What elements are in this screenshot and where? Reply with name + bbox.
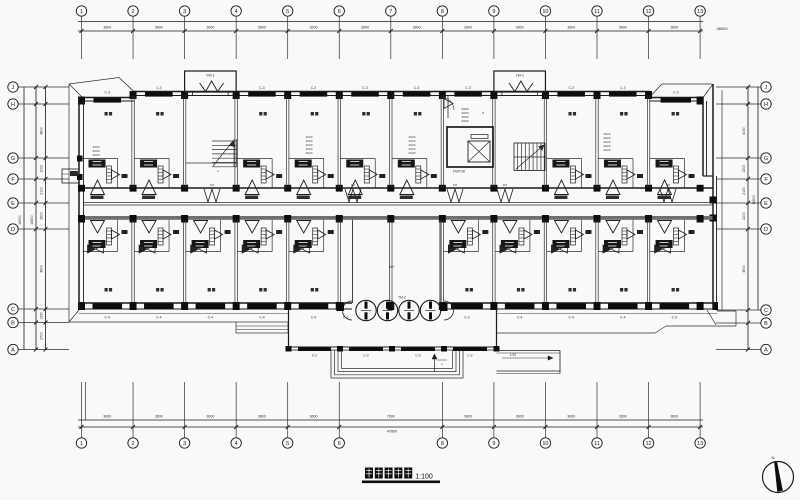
basin block bottom bay11 xyxy=(604,240,621,248)
column bottom-4 xyxy=(233,302,240,310)
row extension line xyxy=(716,228,761,230)
column corridor-N-5 xyxy=(284,185,291,192)
room label bottom bay12 xyxy=(672,288,675,292)
door leaf triangle top bay7 xyxy=(400,180,414,195)
grid bubble 4 top xyxy=(231,6,241,16)
room label top bay6 xyxy=(362,112,365,116)
shower hatch strip bottom bay12 xyxy=(674,228,679,245)
dim tick xyxy=(337,29,341,33)
grid bubble 2 bottom xyxy=(128,438,138,448)
shower hatch strip top bay2 xyxy=(158,166,163,183)
svg-text:12: 12 xyxy=(645,441,651,447)
svg-text:5: 5 xyxy=(286,9,289,15)
bathroom partition top bay10 xyxy=(546,158,581,160)
grid bubble 7 top xyxy=(386,6,396,16)
north arrow circle xyxy=(763,462,794,493)
grid line xyxy=(184,16,186,59)
left segment dim line xyxy=(45,87,47,350)
bathroom partition top bay5 xyxy=(289,158,324,160)
door swing side bottom bay4 xyxy=(266,230,274,239)
bowtie fixture bottom bay10 xyxy=(551,245,559,253)
column top-13 xyxy=(697,97,704,105)
dim tick xyxy=(440,425,444,429)
party wall grid 4 top xyxy=(234,96,236,189)
window C-3 bay2 xyxy=(145,92,173,97)
shower hatch strip bottom bay9 xyxy=(519,228,524,245)
svg-text:6: 6 xyxy=(338,9,341,15)
room label bottom bay11 xyxy=(620,288,623,292)
column bottom-8 xyxy=(439,302,446,310)
svg-text:4900: 4900 xyxy=(742,265,746,273)
svg-text:YM-1: YM-1 xyxy=(206,74,215,78)
bowtie fixture bottom bay11 xyxy=(603,245,611,253)
party wall grid 5 top xyxy=(286,96,288,189)
side door arc right xyxy=(444,301,454,320)
vestibule YM-1 xyxy=(494,71,546,92)
grid line xyxy=(184,382,186,438)
svg-text:3600: 3600 xyxy=(309,26,317,30)
svg-text:3600: 3600 xyxy=(670,26,678,30)
corridor fire door FM zigzag xyxy=(447,189,463,202)
column corridor-N-10 xyxy=(542,185,549,192)
grid bubble 4 bottom xyxy=(231,438,241,448)
row bubble H right xyxy=(761,99,771,109)
party wall grid 6 top xyxy=(337,96,339,189)
dim tick xyxy=(337,425,341,429)
party wall grid 12 top xyxy=(646,96,648,189)
svg-text:1350: 1350 xyxy=(40,312,44,320)
column bottom-11 xyxy=(594,302,601,310)
bathroom partition top bay11 xyxy=(598,158,633,160)
svg-text:16900: 16900 xyxy=(18,215,22,225)
hall west wall xyxy=(352,220,354,303)
grid line xyxy=(132,382,134,438)
bathroom partition top bay4 xyxy=(237,158,272,160)
porch column xyxy=(337,346,343,352)
svg-text:3600: 3600 xyxy=(155,26,163,30)
window C-3 bay4 xyxy=(248,92,276,97)
party wall grid 12 bottom xyxy=(646,220,648,303)
column bottom-3 xyxy=(181,302,188,310)
shower hatch strip bottom bay10 xyxy=(570,228,575,245)
room label bottom bay5 xyxy=(311,288,314,292)
svg-text:C: C xyxy=(764,308,768,314)
svg-text:48000: 48000 xyxy=(716,26,728,31)
svg-text:FM0718: FM0718 xyxy=(453,170,465,174)
svg-text:H: H xyxy=(11,102,15,108)
column bottom-1 xyxy=(78,302,85,310)
shower hatch strip bottom bay1 xyxy=(107,228,112,245)
grid line xyxy=(441,382,443,438)
grid bubble 6 top xyxy=(334,6,344,16)
top-left canopy parapet xyxy=(69,78,134,92)
row extension line xyxy=(18,322,69,324)
column top-7 xyxy=(387,91,394,99)
svg-text:11: 11 xyxy=(594,9,600,15)
column corridor-N-8 xyxy=(439,185,446,192)
svg-text:B: B xyxy=(11,321,15,327)
svg-text:1:100: 1:100 xyxy=(415,474,433,481)
dim tick xyxy=(80,425,84,429)
shower hatch strip top bay10 xyxy=(570,166,575,183)
svg-text:3600: 3600 xyxy=(155,415,163,419)
room label bottom bay4 xyxy=(259,288,262,292)
grid line 1a xyxy=(85,382,87,420)
dim tick xyxy=(131,29,135,33)
row bubble F right xyxy=(761,174,771,184)
bathroom partition bottom bay8 xyxy=(443,251,478,253)
svg-text:J: J xyxy=(765,85,768,91)
row extension line xyxy=(18,349,69,351)
grid bubble 6 bottom xyxy=(334,438,344,448)
party wall grid 3 top xyxy=(182,96,184,189)
column bottom-5 xyxy=(284,302,291,310)
party wall grid 4 bottom xyxy=(234,220,236,303)
dim tick xyxy=(80,29,84,33)
door swing side bottom bay12 xyxy=(679,230,687,239)
dim tick xyxy=(647,29,651,33)
door leaf triangle top bay6 xyxy=(348,180,362,195)
svg-text:2150: 2150 xyxy=(742,187,746,195)
vestibule YM-1 xyxy=(185,71,237,92)
left wall junction blocks xyxy=(77,156,83,162)
dim tick xyxy=(440,29,444,33)
grid line xyxy=(596,382,598,438)
grid line xyxy=(235,382,237,438)
top exterior wall xyxy=(134,91,650,93)
svg-text:7600: 7600 xyxy=(387,415,395,419)
party wall grid 10 bottom xyxy=(543,220,545,303)
row extension line xyxy=(18,228,69,230)
grid bubble 3 top xyxy=(179,6,189,16)
svg-text:1: 1 xyxy=(80,9,83,15)
window C-3 bay6 xyxy=(351,92,379,97)
svg-text:C-4: C-4 xyxy=(620,316,626,320)
svg-text:B: B xyxy=(764,321,768,327)
grid line xyxy=(441,16,443,59)
shower hatch strip bottom bay5 xyxy=(313,228,318,245)
svg-text:3600: 3600 xyxy=(103,26,111,30)
room label bottom bay10 xyxy=(568,288,571,292)
dim tick xyxy=(647,425,651,429)
bowtie fixture bottom bay2 xyxy=(139,245,147,253)
grid line xyxy=(648,16,650,59)
column corridor-N-11 xyxy=(594,185,601,192)
svg-text:47800: 47800 xyxy=(387,430,398,434)
column corridor-S-6 xyxy=(336,215,343,223)
bottom-right corner diagonal xyxy=(707,310,716,325)
dim tick xyxy=(389,29,393,33)
room label bottom bay2 xyxy=(156,288,159,292)
svg-text:2200: 2200 xyxy=(742,165,746,173)
column bottom-right-end xyxy=(713,302,718,310)
column bottom-10 xyxy=(542,302,549,310)
column corridor-S-3 xyxy=(181,215,188,223)
row bubble C right xyxy=(761,305,771,315)
column bottom-2 xyxy=(130,302,137,310)
room label top bay7 xyxy=(414,112,417,116)
window C-4 bay2 bottom xyxy=(144,304,174,310)
party wall grid 5 bottom xyxy=(286,220,288,303)
row extension line xyxy=(716,202,761,204)
door leaf triangle bottom bay9 xyxy=(503,221,517,234)
svg-text:5: 5 xyxy=(286,441,289,447)
corridor fire door FM zigzag xyxy=(204,189,220,202)
door leaf triangle bottom bay1 xyxy=(91,221,105,234)
door leaf triangle top bay12 xyxy=(658,180,672,195)
room label bottom bay1 xyxy=(105,288,108,292)
grid bubble 2 top xyxy=(128,6,138,16)
door leaf triangle top bay5 xyxy=(297,180,311,195)
svg-text:FM: FM xyxy=(453,183,458,187)
svg-text:YM-1: YM-1 xyxy=(515,74,524,78)
door swing side bottom bay11 xyxy=(627,230,635,239)
grid line xyxy=(596,16,598,59)
grid bubble 12 top xyxy=(643,6,653,16)
bowtie fixture bottom bay8 xyxy=(448,245,456,253)
bowtie fixture bottom bay9 xyxy=(500,245,508,253)
grid bubble 9 bottom xyxy=(489,438,499,448)
svg-text:D: D xyxy=(11,227,15,233)
window C-3 bay1 xyxy=(94,98,122,103)
column corridor-S-5 xyxy=(284,215,291,223)
svg-text:1/12: 1/12 xyxy=(510,353,516,357)
row extension line xyxy=(18,178,69,180)
grid bubble 8 bottom xyxy=(437,438,447,448)
svg-text:8: 8 xyxy=(441,9,444,15)
right wall step xyxy=(703,175,713,177)
svg-text:13: 13 xyxy=(697,9,703,15)
party wall grid 9 bottom xyxy=(492,220,494,303)
room label top bay5 xyxy=(311,112,314,116)
door leaf triangle bottom bay11 xyxy=(606,221,620,234)
door leaf triangle top bay4 xyxy=(245,180,259,195)
column corridor-S-8 xyxy=(439,215,446,223)
stair ST-2 xyxy=(514,143,545,171)
svg-text:C-3: C-3 xyxy=(568,86,574,90)
row bubble D left xyxy=(8,224,18,234)
shower hatch strip bottom bay8 xyxy=(467,228,472,245)
porch column xyxy=(286,346,292,352)
svg-text:C-3: C-3 xyxy=(363,354,368,358)
party wall grid 11 bottom xyxy=(595,220,597,303)
bathroom partition bottom bay12 xyxy=(650,251,685,253)
porch column xyxy=(494,346,500,352)
svg-text:3600: 3600 xyxy=(258,26,266,30)
door swing side top bay10 xyxy=(575,170,583,179)
svg-text:2100: 2100 xyxy=(40,187,44,195)
column top-10 xyxy=(542,91,549,99)
top wall recessed bay 12 xyxy=(650,97,703,99)
dim tick xyxy=(131,425,135,429)
grid bubble 11 bottom xyxy=(592,438,602,448)
column corridor-S-7 xyxy=(387,215,394,223)
svg-text:8#+: 8#+ xyxy=(389,265,395,269)
door swing side bottom bay10 xyxy=(575,230,583,239)
grid line xyxy=(287,16,289,59)
column corridor-N-4 xyxy=(233,185,240,192)
bathroom partition top bay7 xyxy=(392,158,427,160)
grid bubble 8 top xyxy=(437,6,447,16)
window C-4 bay5 bottom xyxy=(299,304,329,310)
svg-text:8: 8 xyxy=(482,111,484,115)
window C-2 bay6 bottom xyxy=(349,304,351,310)
svg-text:C-3: C-3 xyxy=(673,91,679,95)
svg-text:3900: 3900 xyxy=(464,26,472,30)
svg-text:C-4: C-4 xyxy=(105,316,111,320)
row bubble H left xyxy=(8,99,18,109)
grid bubble 11 top xyxy=(592,6,602,16)
dim tick xyxy=(183,29,187,33)
svg-text:9: 9 xyxy=(492,441,495,447)
svg-text:3600: 3600 xyxy=(619,26,627,30)
shower hatch strip top bay5 xyxy=(313,166,318,183)
svg-text:C-4: C-4 xyxy=(156,316,162,320)
grid line xyxy=(699,382,701,438)
shower hatch strip top bay6 xyxy=(364,166,369,183)
basin block bottom bay3 xyxy=(192,240,209,248)
row extension line xyxy=(716,349,761,351)
svg-text:FM: FM xyxy=(503,183,508,187)
grid line xyxy=(81,382,83,438)
svg-text:FM: FM xyxy=(666,183,671,187)
svg-text:3: 3 xyxy=(183,9,186,15)
party wall grid 8 bottom xyxy=(440,220,442,303)
dim tick xyxy=(492,425,496,429)
shower hatch strip bottom bay2 xyxy=(158,228,163,245)
row bubble J left xyxy=(8,82,18,92)
svg-text:D: D xyxy=(764,227,768,233)
bottom-left eave line xyxy=(69,321,236,323)
dim tick xyxy=(183,425,187,429)
door leaf triangle bottom bay12 xyxy=(658,221,672,234)
row extension line xyxy=(18,308,69,310)
svg-text:C: C xyxy=(11,307,15,313)
svg-text:16800: 16800 xyxy=(752,195,756,205)
door leaf triangle bottom bay3 xyxy=(194,221,208,234)
column bottom-7 xyxy=(387,302,394,310)
svg-text:C-3: C-3 xyxy=(362,86,368,90)
window C-3 bay11 xyxy=(609,92,637,97)
column top-6 xyxy=(336,91,343,99)
row bubble E left xyxy=(8,198,18,208)
svg-text:3600: 3600 xyxy=(619,415,627,419)
row bubble B left xyxy=(8,317,18,327)
basin block bottom bay8 xyxy=(449,240,466,248)
door leaf triangle top bay10 xyxy=(554,180,568,195)
dim tick xyxy=(234,425,238,429)
door leaf triangle bottom bay4 xyxy=(245,221,259,234)
door swing side top bay7 xyxy=(421,170,429,179)
svg-text:C-3: C-3 xyxy=(259,86,265,90)
hall east wall xyxy=(439,220,441,303)
svg-text:11: 11 xyxy=(594,441,600,447)
shower hatch strip top bay7 xyxy=(416,166,421,183)
row extension line xyxy=(716,322,761,324)
door swing side bottom bay2 xyxy=(163,230,171,239)
svg-text:3600: 3600 xyxy=(516,415,524,419)
bathroom partition bottom bay9 xyxy=(495,251,530,253)
shower hatch strip top bay11 xyxy=(622,166,627,183)
window C-4 bay1 bottom xyxy=(93,304,123,310)
svg-text:3900: 3900 xyxy=(361,26,369,30)
svg-text:3900: 3900 xyxy=(413,26,421,30)
door break zigzag xyxy=(200,81,224,92)
door swing side bottom bay5 xyxy=(318,230,326,239)
svg-text:3600: 3600 xyxy=(670,415,678,419)
svg-text:N: N xyxy=(772,455,775,460)
lobby partition xyxy=(447,96,449,118)
svg-text:4: 4 xyxy=(235,9,238,15)
dim tick xyxy=(698,425,702,429)
dim tick xyxy=(543,425,547,429)
bathroom partition bottom bay1 xyxy=(83,251,118,253)
bottom dimension line xyxy=(78,419,703,421)
column corridor-N-13 xyxy=(697,185,704,192)
grid line xyxy=(493,16,495,59)
room label bottom bay9 xyxy=(517,288,520,292)
party wall grid 6 bottom xyxy=(337,220,339,303)
shower hatch strip top bay4 xyxy=(261,166,266,183)
row bubble C left xyxy=(8,304,18,314)
svg-text:10: 10 xyxy=(542,9,548,15)
door swing side top bay6 xyxy=(369,170,377,179)
column corridor-N-9 xyxy=(490,185,497,192)
row bubble E right xyxy=(761,198,771,208)
svg-text:C-3: C-3 xyxy=(311,86,317,90)
party wall grid 2 bottom xyxy=(131,220,133,303)
bowtie fixture bottom bay12 xyxy=(655,245,663,253)
porch column xyxy=(441,346,447,352)
left entry step xyxy=(62,169,79,183)
column corridor-S-13 xyxy=(697,215,704,223)
svg-text:13: 13 xyxy=(697,441,703,447)
svg-text:2020: 2020 xyxy=(306,151,313,155)
party wall grid 7 bottom xyxy=(389,220,391,303)
svg-text:A: A xyxy=(764,348,768,354)
shower hatch strip bottom bay4 xyxy=(261,228,266,245)
svg-text:2020: 2020 xyxy=(409,151,416,155)
left subtotal dim line xyxy=(35,87,37,350)
bottom exterior wall right part xyxy=(440,302,717,304)
porch window C-3 xyxy=(349,348,383,352)
svg-text:2600: 2600 xyxy=(40,212,44,220)
row extension line xyxy=(716,86,761,88)
grid line xyxy=(338,16,340,59)
door swing side bottom bay9 xyxy=(524,230,532,239)
column top-1 xyxy=(78,97,85,105)
row bubble G left xyxy=(8,153,18,163)
svg-text:C-3: C-3 xyxy=(415,354,420,358)
grid line xyxy=(544,16,546,59)
column corridor-S-11 xyxy=(594,215,601,223)
column top-9 xyxy=(490,91,497,99)
column corridor-N-6 xyxy=(336,185,343,192)
door swing side bottom bay3 xyxy=(215,230,223,239)
top wall recessed bay 1 xyxy=(79,97,134,99)
left total dim line xyxy=(23,87,25,350)
svg-text:TM-2: TM-2 xyxy=(398,296,406,300)
party wall grid 2 top xyxy=(131,96,133,189)
grid bubble 13 bottom xyxy=(695,438,705,448)
column top-3 xyxy=(181,91,188,99)
bowtie fixture bottom bay5 xyxy=(294,245,302,253)
svg-text:C-4: C-4 xyxy=(568,316,574,320)
dim tick xyxy=(286,425,290,429)
dim tick xyxy=(595,425,599,429)
door swing side bottom bay8 xyxy=(472,230,480,239)
bathroom partition top bay6 xyxy=(340,158,375,160)
